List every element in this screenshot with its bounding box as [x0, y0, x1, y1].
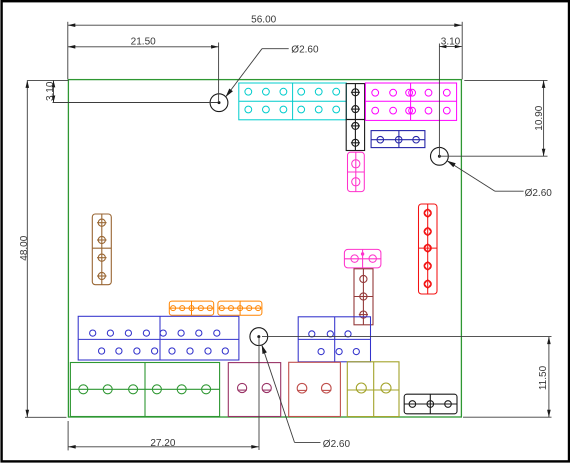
dimension 3.10 top-right: [439, 44, 461, 158]
svg-text:10.90: 10.90: [534, 105, 545, 130]
dimension 48.00: [25, 80, 67, 417]
svg-text:27.20: 27.20: [150, 438, 175, 449]
mounting hole H3 bottom: [250, 328, 268, 346]
connector J16 red 2-hole block: [289, 362, 341, 416]
leader Ø2.60 right: [447, 161, 524, 192]
dimension 10.90: [441, 80, 548, 156]
dimension 11.50: [262, 337, 552, 418]
dimension 56.00: [68, 22, 462, 80]
connector J4 navy 1x3 header: [371, 131, 425, 148]
svg-text:48.00: 48.00: [19, 235, 30, 260]
connector J18 black 1x3 header bottom: [404, 394, 457, 414]
connector J7 red 5-pin vertical: [419, 204, 438, 294]
connector J3 magenta 2x5 header: [365, 83, 456, 120]
connector J17 olive 2-hole block: [347, 362, 399, 417]
connector J11 orange 1x5 strip right: [218, 301, 262, 315]
svg-text:21.50: 21.50: [131, 37, 156, 48]
PCB board outline: [68, 80, 461, 417]
connector J6 brown 4-pin vertical: [92, 214, 111, 285]
connector J1 cyan 2x6 header: [239, 83, 347, 120]
connector J14 green 6-pin terminal block: [70, 363, 219, 417]
connector J8 pink 2-pin horizontal with polarity dot: [344, 249, 381, 268]
connector J2 black 2x2-pin vertical pair: [346, 84, 364, 151]
svg-text:Ø2.60: Ø2.60: [323, 439, 351, 450]
svg-text:11.50: 11.50: [538, 365, 549, 390]
dimension 21.50: [68, 43, 219, 103]
mounting hole H2 top-right: [431, 147, 449, 165]
svg-text:Ø2.60: Ø2.60: [291, 45, 319, 56]
svg-text:3.10: 3.10: [441, 37, 461, 48]
svg-text:56.00: 56.00: [251, 15, 276, 26]
connector J9 dark-red 3-pin vertical: [354, 269, 373, 325]
svg-text:Ø2.60: Ø2.60: [525, 188, 553, 199]
dimension 3.10 left: [27, 80, 218, 102]
connector J12 blue 2x8 staggered header left: [78, 316, 239, 360]
connector J15 purple 2-hole block: [228, 363, 280, 417]
dimension 27.20: [68, 337, 259, 451]
leader Ø2.60 bottom: [262, 345, 321, 443]
mounting hole H1 top-left: [210, 94, 228, 112]
connector J10 orange 1x5 strip left: [169, 301, 213, 315]
svg-text:3.10: 3.10: [45, 81, 56, 101]
connector J13 blue 2x3 staggered header right: [298, 317, 370, 362]
connector J5 pink 2-pin vertical: [348, 152, 365, 191]
leader Ø2.60 top: [226, 49, 289, 97]
